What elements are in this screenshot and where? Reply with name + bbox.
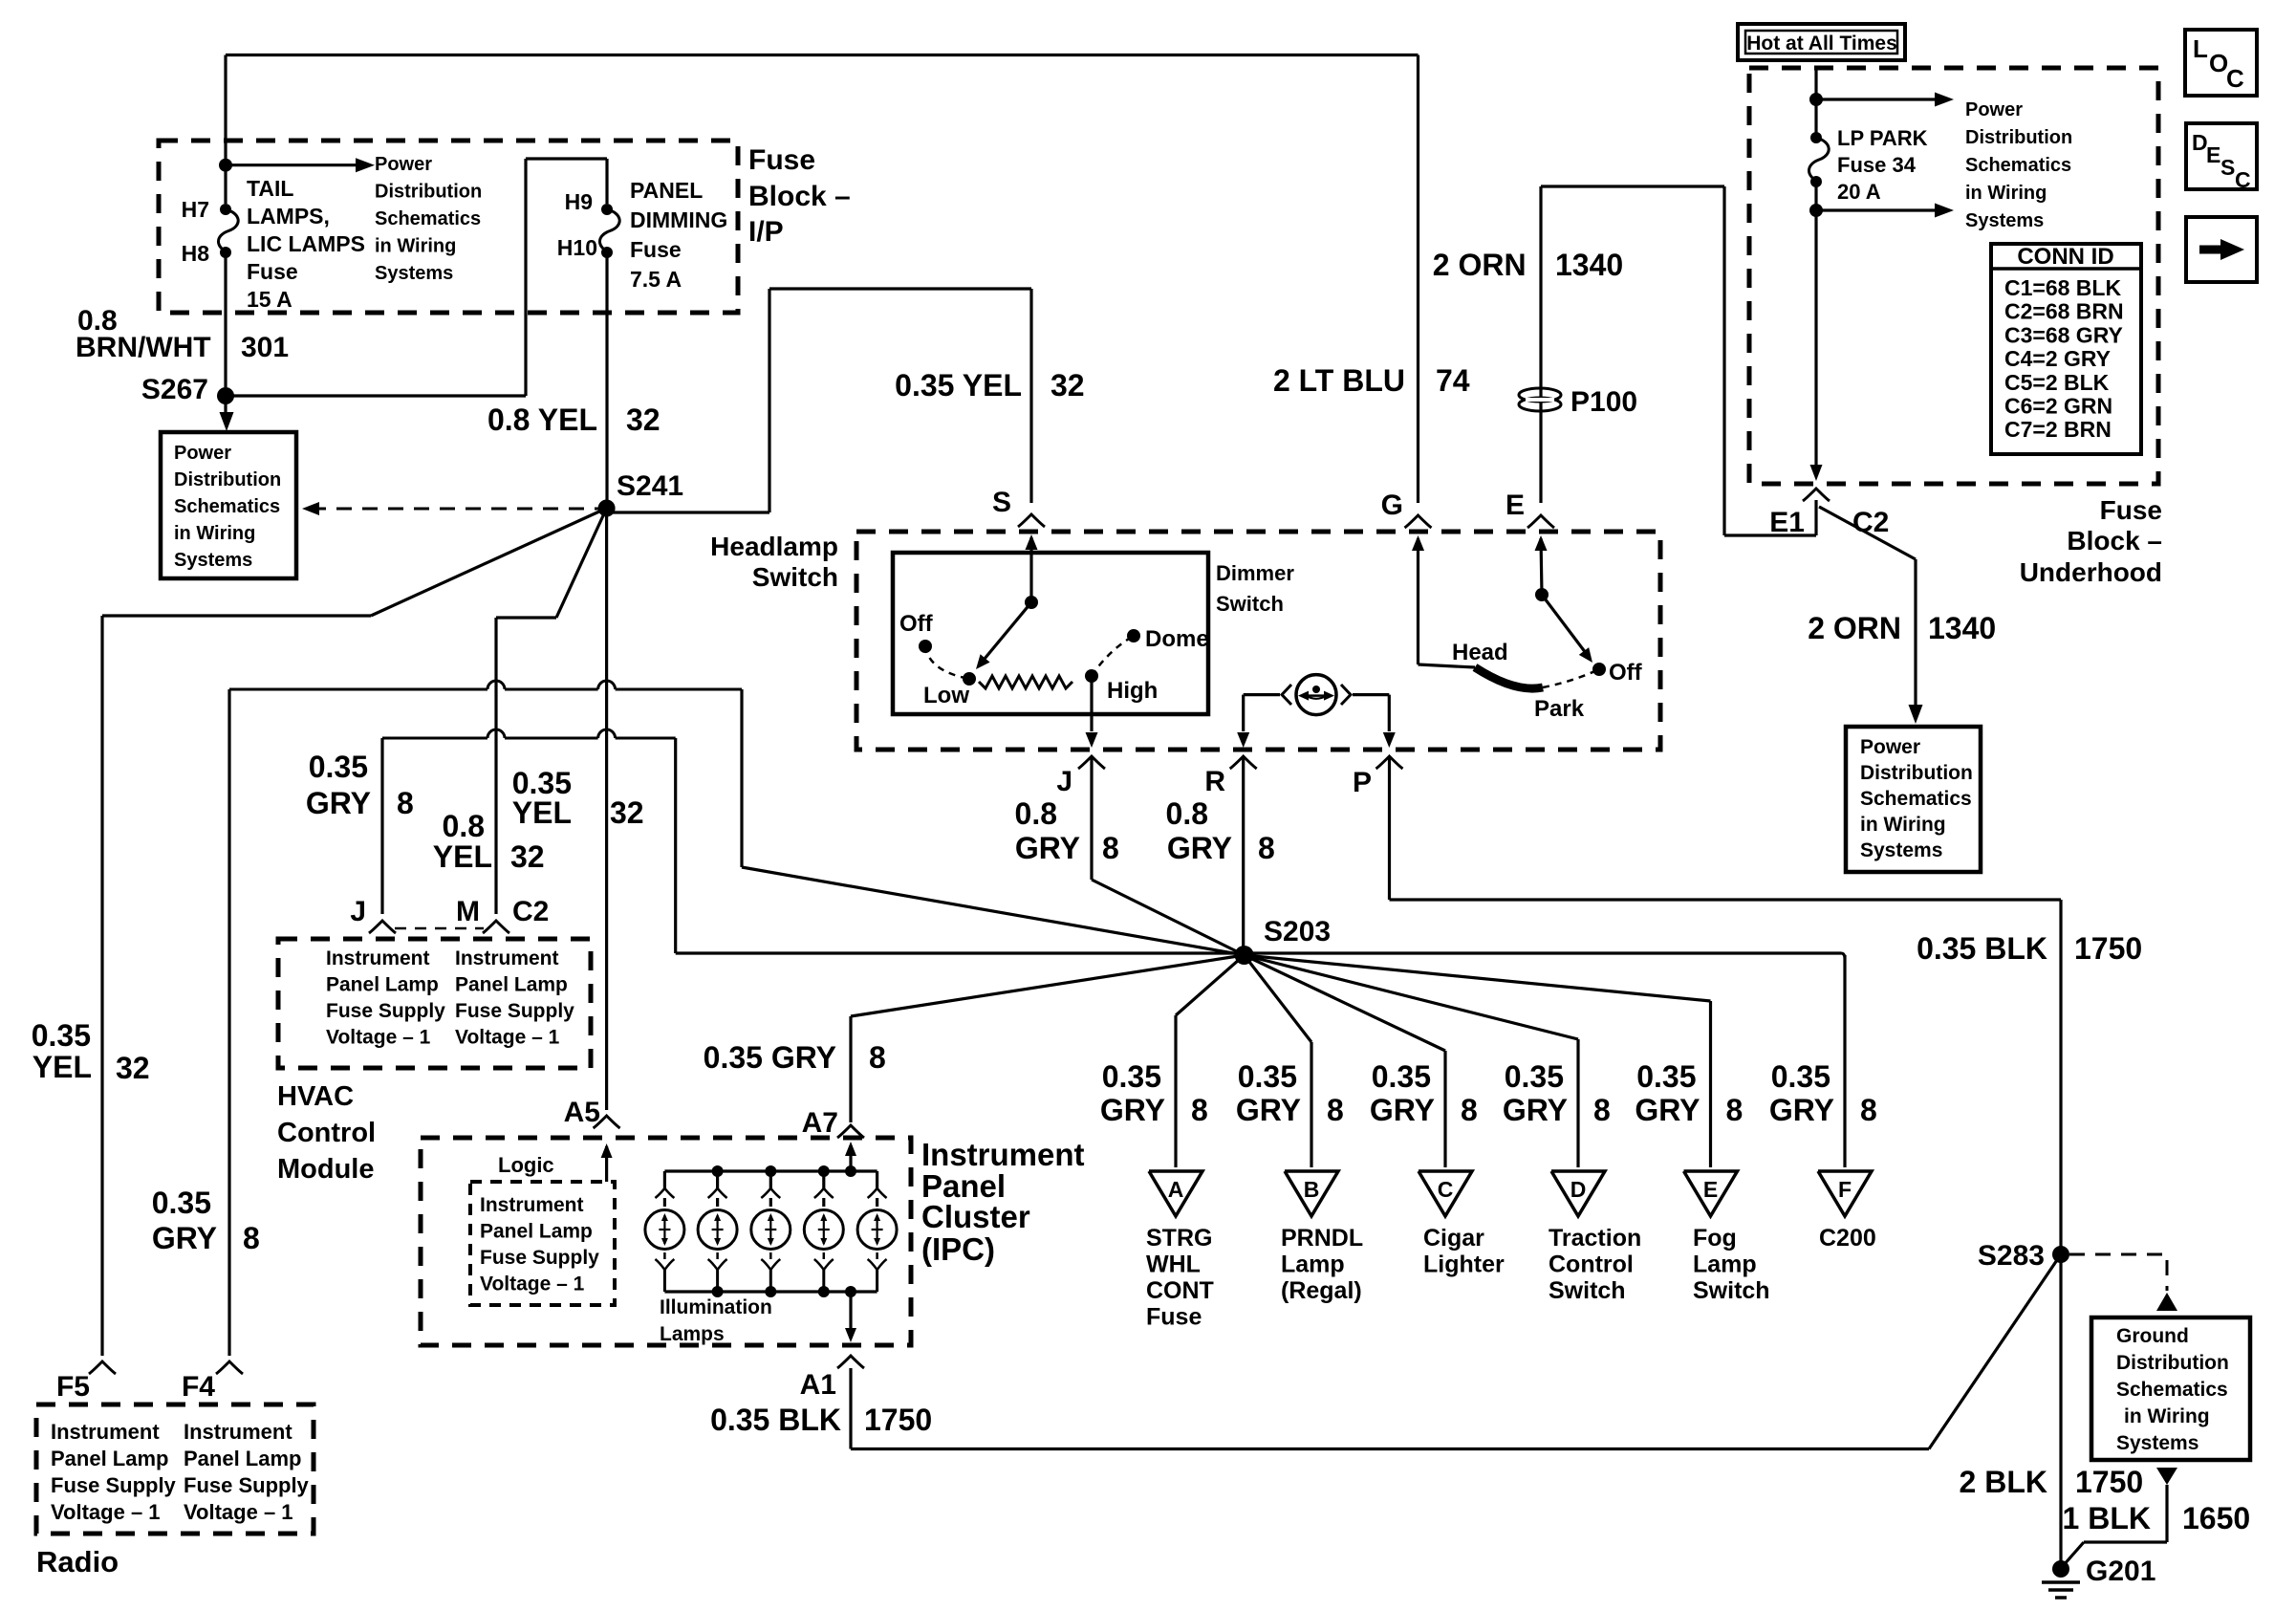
svg-text:1650: 1650 bbox=[2182, 1501, 2250, 1535]
svg-text:J: J bbox=[350, 896, 366, 927]
svg-text:0.35: 0.35 bbox=[1636, 1059, 1696, 1094]
svg-text:H9: H9 bbox=[565, 189, 593, 214]
svg-text:Headlamp: Headlamp bbox=[710, 532, 838, 561]
svg-text:Lamp: Lamp bbox=[1693, 1252, 1757, 1278]
svg-text:S267: S267 bbox=[141, 374, 208, 405]
svg-text:Distribution: Distribution bbox=[375, 182, 482, 203]
svg-text:STRG: STRG bbox=[1146, 1225, 1212, 1252]
svg-text:Head: Head bbox=[1452, 640, 1508, 665]
svg-text:in Wiring: in Wiring bbox=[174, 523, 255, 544]
svg-text:C4=2 GRY: C4=2 GRY bbox=[2004, 346, 2111, 371]
svg-text:Off: Off bbox=[1609, 660, 1643, 686]
svg-text:E: E bbox=[1505, 490, 1525, 521]
svg-text:301: 301 bbox=[241, 332, 289, 363]
svg-text:YEL: YEL bbox=[433, 839, 492, 874]
svg-text:GRY: GRY bbox=[1015, 831, 1080, 865]
svg-text:Control: Control bbox=[1549, 1252, 1634, 1278]
svg-text:M: M bbox=[456, 896, 480, 927]
svg-text:2 LT BLU: 2 LT BLU bbox=[1273, 363, 1405, 398]
svg-text:Instrument: Instrument bbox=[326, 947, 430, 969]
svg-text:LAMPS,: LAMPS, bbox=[247, 204, 330, 229]
svg-text:LP PARK: LP PARK bbox=[1837, 126, 1928, 150]
svg-text:Panel Lamp: Panel Lamp bbox=[480, 1221, 593, 1243]
svg-text:Park: Park bbox=[1534, 696, 1585, 722]
svg-text:Panel Lamp: Panel Lamp bbox=[455, 974, 568, 996]
svg-text:S283: S283 bbox=[1978, 1240, 2045, 1272]
svg-text:32: 32 bbox=[626, 403, 661, 437]
svg-text:High: High bbox=[1107, 678, 1158, 704]
svg-text:GRY: GRY bbox=[1503, 1093, 1568, 1127]
svg-text:Off: Off bbox=[899, 611, 934, 637]
svg-text:C: C bbox=[2226, 64, 2244, 93]
svg-text:S: S bbox=[992, 487, 1011, 518]
svg-text:GRY: GRY bbox=[1370, 1093, 1435, 1127]
svg-text:A1: A1 bbox=[800, 1369, 836, 1401]
svg-text:J: J bbox=[1056, 766, 1072, 797]
svg-text:Fuse Supply: Fuse Supply bbox=[455, 1000, 574, 1022]
svg-text:1 BLK: 1 BLK bbox=[2063, 1501, 2151, 1535]
svg-text:E: E bbox=[1703, 1177, 1718, 1202]
svg-text:in Wiring: in Wiring bbox=[1860, 814, 1946, 836]
svg-text:Schematics: Schematics bbox=[2116, 1379, 2228, 1401]
svg-text:0.35: 0.35 bbox=[32, 1018, 91, 1053]
svg-text:7.5 A: 7.5 A bbox=[630, 267, 682, 292]
svg-text:in Wiring: in Wiring bbox=[1965, 183, 2047, 204]
svg-text:Control: Control bbox=[277, 1118, 376, 1148]
svg-text:Switch: Switch bbox=[1549, 1277, 1626, 1304]
svg-text:Fuse: Fuse bbox=[1146, 1304, 1202, 1331]
svg-text:Schematics: Schematics bbox=[1860, 788, 1972, 810]
svg-text:32: 32 bbox=[1051, 368, 1085, 403]
svg-text:1340: 1340 bbox=[1928, 611, 1996, 645]
svg-text:8: 8 bbox=[1327, 1093, 1344, 1127]
svg-text:Low: Low bbox=[923, 683, 969, 708]
svg-text:1750: 1750 bbox=[2075, 1465, 2143, 1499]
svg-text:32: 32 bbox=[116, 1051, 150, 1085]
svg-text:1340: 1340 bbox=[1555, 248, 1623, 282]
svg-text:0.35 BLK: 0.35 BLK bbox=[710, 1403, 841, 1437]
svg-text:Power: Power bbox=[375, 154, 432, 175]
svg-text:Power: Power bbox=[1860, 736, 1920, 758]
svg-text:Cigar: Cigar bbox=[1423, 1225, 1484, 1252]
svg-text:H7: H7 bbox=[182, 197, 209, 222]
svg-text:8: 8 bbox=[1860, 1093, 1877, 1127]
svg-text:Schematics: Schematics bbox=[375, 208, 481, 229]
svg-text:Systems: Systems bbox=[1860, 839, 1942, 861]
svg-text:Voltage – 1: Voltage – 1 bbox=[455, 1027, 560, 1049]
svg-text:Fuse Supply: Fuse Supply bbox=[480, 1247, 599, 1269]
svg-text:in Wiring: in Wiring bbox=[375, 236, 456, 257]
svg-text:Fuse: Fuse bbox=[748, 144, 815, 176]
svg-text:Instrument: Instrument bbox=[184, 1420, 292, 1444]
svg-text:YEL: YEL bbox=[512, 795, 572, 830]
svg-text:0.35: 0.35 bbox=[309, 750, 368, 784]
svg-text:C3=68 GRY: C3=68 GRY bbox=[2004, 322, 2123, 347]
svg-text:Logic: Logic bbox=[498, 1153, 554, 1177]
svg-text:Switch: Switch bbox=[752, 562, 838, 592]
svg-text:H8: H8 bbox=[182, 241, 210, 266]
svg-text:Voltage – 1: Voltage – 1 bbox=[326, 1027, 431, 1049]
svg-text:GRY: GRY bbox=[1100, 1093, 1165, 1127]
svg-text:32: 32 bbox=[610, 795, 644, 830]
svg-text:0.35 GRY: 0.35 GRY bbox=[704, 1040, 836, 1075]
svg-text:Block –: Block – bbox=[2067, 526, 2162, 555]
svg-text:Schematics: Schematics bbox=[1965, 155, 2071, 176]
svg-text:C: C bbox=[2235, 167, 2251, 192]
svg-text:Radio: Radio bbox=[36, 1545, 119, 1578]
svg-text:C: C bbox=[1438, 1177, 1454, 1202]
svg-text:GRY: GRY bbox=[152, 1221, 217, 1255]
svg-text:2 ORN: 2 ORN bbox=[1433, 248, 1527, 282]
svg-text:Distribution: Distribution bbox=[1965, 127, 2072, 148]
svg-text:Fuse 34: Fuse 34 bbox=[1837, 153, 1917, 177]
svg-text:Fuse: Fuse bbox=[630, 237, 682, 262]
svg-text:Lighter: Lighter bbox=[1423, 1252, 1505, 1278]
svg-text:Traction: Traction bbox=[1549, 1225, 1641, 1252]
svg-text:GRY: GRY bbox=[1167, 831, 1232, 865]
svg-text:8: 8 bbox=[869, 1040, 886, 1075]
svg-text:YEL: YEL bbox=[32, 1050, 92, 1084]
svg-text:Systems: Systems bbox=[174, 550, 252, 571]
svg-text:C2=68 BRN: C2=68 BRN bbox=[2004, 299, 2124, 324]
svg-text:R: R bbox=[1204, 766, 1225, 797]
svg-text:G201: G201 bbox=[2086, 1556, 2155, 1587]
svg-text:A7: A7 bbox=[802, 1107, 838, 1139]
svg-text:C5=2 BLK: C5=2 BLK bbox=[2004, 370, 2110, 395]
svg-text:Dome: Dome bbox=[1145, 626, 1209, 652]
svg-text:Voltage – 1: Voltage – 1 bbox=[51, 1500, 161, 1524]
svg-text:Underhood: Underhood bbox=[2020, 557, 2162, 587]
svg-text:E1: E1 bbox=[1769, 507, 1805, 538]
svg-text:G: G bbox=[1381, 490, 1403, 521]
svg-text:0.35: 0.35 bbox=[1771, 1059, 1830, 1094]
svg-text:Fog: Fog bbox=[1693, 1225, 1737, 1252]
svg-text:DIMMING: DIMMING bbox=[630, 207, 727, 232]
svg-text:(IPC): (IPC) bbox=[921, 1231, 995, 1267]
svg-text:A5: A5 bbox=[564, 1097, 600, 1128]
svg-text:0.8 YEL: 0.8 YEL bbox=[487, 403, 597, 437]
svg-text:D: D bbox=[1570, 1177, 1587, 1202]
svg-text:Lamps: Lamps bbox=[660, 1323, 725, 1345]
svg-text:2 BLK: 2 BLK bbox=[1960, 1465, 2047, 1499]
svg-text:Panel Lamp: Panel Lamp bbox=[184, 1447, 301, 1470]
svg-text:8: 8 bbox=[1593, 1093, 1611, 1127]
svg-text:F: F bbox=[1838, 1177, 1852, 1202]
svg-text:C2: C2 bbox=[512, 896, 549, 927]
svg-text:P: P bbox=[1353, 767, 1372, 798]
svg-text:Lamp: Lamp bbox=[1281, 1252, 1345, 1278]
svg-text:74: 74 bbox=[1436, 363, 1470, 398]
svg-text:0.35: 0.35 bbox=[1238, 1059, 1297, 1094]
svg-text:B: B bbox=[1304, 1177, 1320, 1202]
svg-text:HVAC: HVAC bbox=[277, 1081, 354, 1112]
svg-text:Panel Lamp: Panel Lamp bbox=[51, 1447, 168, 1470]
svg-text:TAIL: TAIL bbox=[247, 176, 293, 201]
svg-text:BRN/WHT: BRN/WHT bbox=[76, 332, 211, 363]
svg-text:GRY: GRY bbox=[306, 786, 371, 820]
svg-text:L: L bbox=[2193, 34, 2208, 63]
svg-text:Switch: Switch bbox=[1693, 1277, 1770, 1304]
svg-text:CONT: CONT bbox=[1146, 1277, 1214, 1304]
svg-text:2 ORN: 2 ORN bbox=[1808, 611, 1901, 645]
svg-text:0.35 BLK: 0.35 BLK bbox=[1917, 931, 2047, 966]
svg-text:H10: H10 bbox=[557, 235, 597, 260]
svg-text:Ground: Ground bbox=[2116, 1325, 2189, 1347]
svg-text:Switch: Switch bbox=[1216, 592, 1284, 616]
svg-text:LIC LAMPS: LIC LAMPS bbox=[247, 231, 365, 256]
svg-text:S: S bbox=[2220, 155, 2235, 180]
svg-text:F5: F5 bbox=[56, 1371, 90, 1403]
svg-text:Dimmer: Dimmer bbox=[1216, 561, 1294, 585]
svg-text:8: 8 bbox=[1191, 1093, 1208, 1127]
svg-text:8: 8 bbox=[397, 786, 414, 820]
svg-text:C1=68 BLK: C1=68 BLK bbox=[2004, 275, 2121, 300]
svg-text:0.8: 0.8 bbox=[1015, 796, 1057, 831]
svg-text:in Wiring: in Wiring bbox=[2124, 1405, 2210, 1427]
svg-text:8: 8 bbox=[1726, 1093, 1744, 1127]
svg-text:8: 8 bbox=[1461, 1093, 1478, 1127]
svg-text:0.35: 0.35 bbox=[1102, 1059, 1161, 1094]
svg-text:Voltage – 1: Voltage – 1 bbox=[184, 1500, 293, 1524]
svg-text:Panel Lamp: Panel Lamp bbox=[326, 974, 439, 996]
svg-text:Instrument: Instrument bbox=[51, 1420, 160, 1444]
svg-text:8: 8 bbox=[1102, 831, 1119, 865]
svg-text:I/P: I/P bbox=[748, 216, 784, 248]
svg-text:0.35: 0.35 bbox=[152, 1186, 211, 1220]
svg-text:F4: F4 bbox=[182, 1371, 215, 1403]
svg-text:GRY: GRY bbox=[1769, 1093, 1834, 1127]
svg-text:Instrument: Instrument bbox=[455, 947, 559, 969]
svg-text:Distribution: Distribution bbox=[174, 469, 281, 490]
svg-text:PRNDL: PRNDL bbox=[1281, 1225, 1363, 1252]
svg-text:Systems: Systems bbox=[1965, 210, 2044, 231]
svg-text:20 A: 20 A bbox=[1837, 180, 1881, 204]
svg-text:Cluster: Cluster bbox=[921, 1199, 1030, 1234]
svg-text:Systems: Systems bbox=[375, 263, 453, 284]
svg-text:S241: S241 bbox=[617, 470, 683, 502]
svg-text:CONN ID: CONN ID bbox=[2017, 244, 2113, 270]
svg-text:Illumination: Illumination bbox=[660, 1296, 772, 1318]
svg-text:8: 8 bbox=[243, 1221, 260, 1255]
svg-text:Block –: Block – bbox=[748, 181, 851, 212]
svg-text:GRY: GRY bbox=[1236, 1093, 1301, 1127]
svg-text:Fuse Supply: Fuse Supply bbox=[184, 1473, 310, 1497]
svg-text:0.35: 0.35 bbox=[1505, 1059, 1564, 1094]
svg-text:C6=2 GRN: C6=2 GRN bbox=[2004, 394, 2112, 419]
svg-text:S203: S203 bbox=[1264, 916, 1331, 947]
svg-text:P100: P100 bbox=[1570, 386, 1637, 418]
svg-text:Fuse Supply: Fuse Supply bbox=[326, 1000, 445, 1022]
svg-text:Voltage – 1: Voltage – 1 bbox=[480, 1274, 585, 1295]
svg-text:0.35: 0.35 bbox=[1372, 1059, 1431, 1094]
svg-text:C7=2 BRN: C7=2 BRN bbox=[2004, 417, 2112, 442]
svg-text:8: 8 bbox=[1258, 831, 1275, 865]
svg-text:0.8: 0.8 bbox=[1166, 796, 1208, 831]
svg-text:C200: C200 bbox=[1819, 1225, 1876, 1252]
svg-text:Systems: Systems bbox=[2116, 1432, 2199, 1454]
svg-text:0.8: 0.8 bbox=[443, 809, 485, 843]
svg-text:0.35 YEL: 0.35 YEL bbox=[895, 368, 1022, 403]
svg-text:Fuse: Fuse bbox=[247, 259, 298, 284]
svg-text:Instrument: Instrument bbox=[921, 1137, 1085, 1172]
svg-text:WHL: WHL bbox=[1146, 1252, 1201, 1278]
svg-text:Fuse: Fuse bbox=[2100, 495, 2162, 525]
svg-text:1750: 1750 bbox=[2074, 931, 2142, 966]
svg-text:PANEL: PANEL bbox=[630, 178, 703, 203]
svg-text:Module: Module bbox=[277, 1154, 375, 1185]
svg-text:Power: Power bbox=[1965, 99, 2023, 120]
svg-text:A: A bbox=[1168, 1177, 1184, 1202]
svg-text:Power: Power bbox=[174, 443, 231, 464]
svg-text:Hot at All Times: Hot at All Times bbox=[1746, 33, 1897, 54]
svg-text:GRY: GRY bbox=[1635, 1093, 1700, 1127]
svg-text:1750: 1750 bbox=[864, 1403, 932, 1437]
svg-text:(Regal): (Regal) bbox=[1281, 1277, 1362, 1304]
svg-text:Instrument: Instrument bbox=[480, 1194, 584, 1216]
svg-text:Fuse Supply: Fuse Supply bbox=[51, 1473, 177, 1497]
svg-text:Distribution: Distribution bbox=[2116, 1352, 2229, 1374]
svg-text:15 A: 15 A bbox=[247, 287, 292, 312]
svg-text:E: E bbox=[2206, 142, 2220, 167]
svg-text:Distribution: Distribution bbox=[1860, 762, 1973, 784]
svg-text:32: 32 bbox=[510, 839, 545, 874]
svg-text:Schematics: Schematics bbox=[174, 496, 280, 517]
